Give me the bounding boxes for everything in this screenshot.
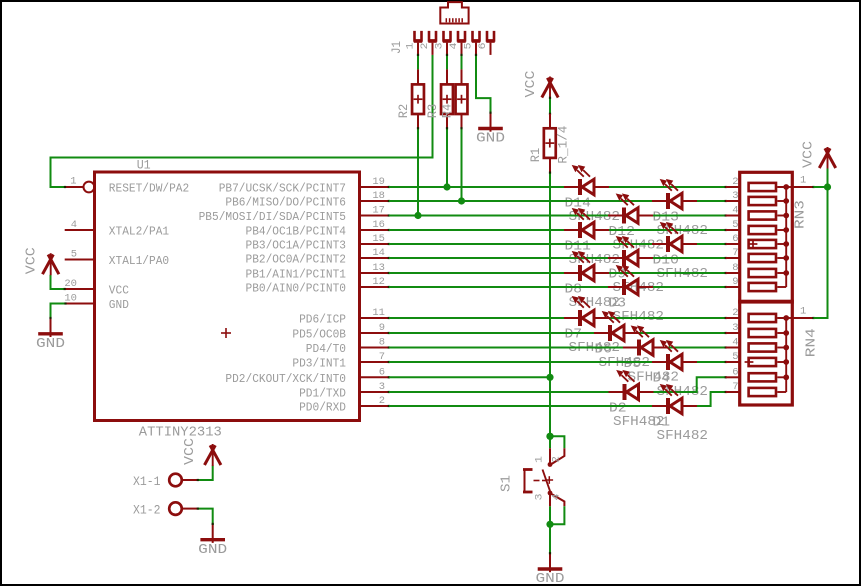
- svg-text:VCC: VCC: [23, 247, 39, 274]
- svg-text:1: 1: [800, 174, 806, 186]
- svg-text:14: 14: [372, 247, 385, 259]
- svg-text:PB3/OC1A/PCINT3: PB3/OC1A/PCINT3: [246, 239, 347, 253]
- svg-text:6: 6: [379, 366, 385, 378]
- svg-text:15: 15: [372, 233, 385, 245]
- svg-text:6: 6: [732, 366, 738, 378]
- svg-text:9: 9: [732, 276, 738, 288]
- svg-text:VCC: VCC: [182, 438, 198, 465]
- svg-text:9: 9: [379, 322, 385, 334]
- svg-text:8: 8: [379, 337, 385, 349]
- svg-text:5: 5: [462, 43, 474, 50]
- svg-text:GND: GND: [536, 571, 565, 586]
- svg-text:3: 3: [379, 381, 385, 393]
- svg-text:16: 16: [372, 219, 385, 231]
- svg-text:XTAL2/PA1: XTAL2/PA1: [109, 224, 169, 238]
- svg-text:4: 4: [732, 337, 738, 349]
- svg-text:7: 7: [732, 247, 738, 259]
- svg-text:3: 3: [732, 190, 738, 202]
- svg-text:R3: R3: [425, 104, 440, 119]
- svg-text:4: 4: [71, 219, 77, 231]
- svg-text:1: 1: [800, 306, 806, 318]
- svg-text:PD1/TXD: PD1/TXD: [299, 387, 346, 401]
- svg-text:3: 3: [533, 494, 545, 501]
- svg-text:PD5/OC0B: PD5/OC0B: [292, 328, 346, 342]
- svg-text:PB7/UCSK/SCK/PCINT7: PB7/UCSK/SCK/PCINT7: [219, 182, 346, 196]
- svg-text:R4: R4: [440, 104, 455, 119]
- svg-text:4: 4: [448, 43, 460, 50]
- svg-text:PD6/ICP: PD6/ICP: [299, 313, 346, 327]
- svg-text:S1: S1: [500, 475, 515, 492]
- svg-text:1: 1: [404, 43, 416, 50]
- svg-text:PD4/T0: PD4/T0: [306, 342, 346, 356]
- svg-text:X1-1: X1-1: [133, 474, 161, 489]
- svg-text:7: 7: [379, 351, 385, 363]
- svg-text:PB6/MISO/DO/PCINT6: PB6/MISO/DO/PCINT6: [225, 196, 346, 210]
- svg-text:12: 12: [372, 276, 385, 288]
- svg-text:PB4/OC1B/PCINT4: PB4/OC1B/PCINT4: [246, 225, 347, 239]
- svg-text:ATTINY2313: ATTINY2313: [139, 425, 222, 441]
- svg-text:GND: GND: [109, 298, 129, 312]
- svg-text:RN3: RN3: [792, 200, 808, 229]
- svg-text:19: 19: [372, 176, 385, 188]
- svg-text:2: 2: [550, 456, 562, 463]
- svg-text:VCC: VCC: [109, 283, 129, 297]
- svg-text:20: 20: [64, 278, 77, 290]
- svg-text:5: 5: [732, 351, 738, 363]
- svg-text:3: 3: [433, 43, 445, 50]
- svg-text:X1-2: X1-2: [133, 502, 161, 517]
- svg-text:RN4: RN4: [804, 328, 820, 357]
- svg-text:5: 5: [71, 249, 77, 261]
- svg-text:RESET/DW/PA2: RESET/DW/PA2: [109, 181, 189, 195]
- svg-text:6: 6: [477, 43, 489, 50]
- svg-text:6: 6: [732, 233, 738, 245]
- svg-text:R1: R1: [528, 148, 543, 163]
- svg-text:4: 4: [732, 205, 738, 217]
- svg-text:3: 3: [732, 322, 738, 334]
- svg-text:18: 18: [372, 190, 385, 202]
- svg-text:8: 8: [732, 262, 738, 274]
- svg-text:GND: GND: [476, 131, 505, 147]
- svg-text:PD0/RXD: PD0/RXD: [299, 401, 346, 415]
- svg-text:11: 11: [372, 307, 385, 319]
- svg-text:2: 2: [732, 176, 738, 188]
- svg-text:PB5/MOSI/DI/SDA/PCINT5: PB5/MOSI/DI/SDA/PCINT5: [199, 210, 346, 224]
- svg-text:5: 5: [732, 219, 738, 231]
- svg-text:SFH482: SFH482: [657, 428, 709, 444]
- svg-text:VCC: VCC: [800, 141, 816, 168]
- svg-text:PB0/AIN0/PCINT0: PB0/AIN0/PCINT0: [246, 282, 347, 296]
- svg-text:17: 17: [372, 205, 385, 217]
- svg-text:13: 13: [372, 262, 385, 274]
- svg-text:PB1/AIN1/PCINT1: PB1/AIN1/PCINT1: [246, 268, 347, 282]
- svg-text:7: 7: [732, 381, 738, 393]
- svg-text:2: 2: [732, 307, 738, 319]
- svg-text:R_1/4: R_1/4: [555, 125, 570, 163]
- svg-text:VCC: VCC: [523, 71, 539, 98]
- svg-text:2: 2: [419, 43, 431, 50]
- svg-text:XTAL1/PA0: XTAL1/PA0: [109, 254, 169, 268]
- svg-text:2: 2: [379, 395, 385, 407]
- svg-text:J1: J1: [389, 41, 404, 54]
- svg-text:U1: U1: [137, 158, 151, 173]
- svg-text:R2: R2: [396, 104, 411, 119]
- svg-text:1: 1: [70, 176, 76, 188]
- svg-text:GND: GND: [36, 336, 65, 352]
- svg-text:PB2/OC0A/PCINT2: PB2/OC0A/PCINT2: [246, 253, 347, 267]
- svg-text:4: 4: [550, 494, 562, 501]
- svg-text:1: 1: [533, 456, 545, 463]
- svg-text:PD2/CKOUT/XCK/INT0: PD2/CKOUT/XCK/INT0: [225, 372, 346, 386]
- svg-text:GND: GND: [198, 542, 227, 558]
- svg-text:PD3/INT1: PD3/INT1: [292, 357, 346, 371]
